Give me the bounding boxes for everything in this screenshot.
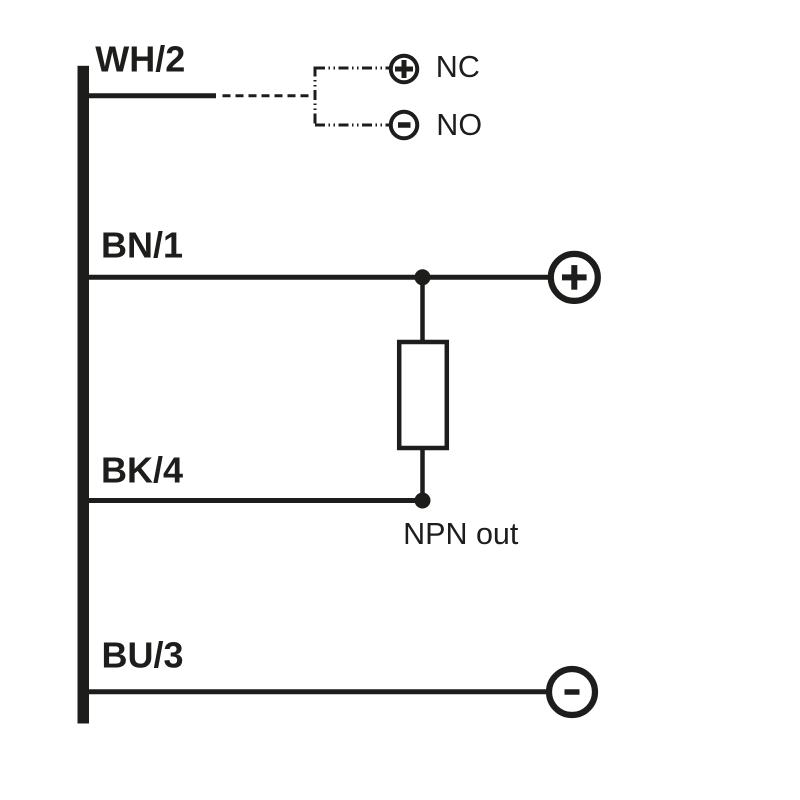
svg-text:BN/1: BN/1 [101, 224, 183, 265]
svg-text:BU/3: BU/3 [102, 635, 184, 676]
svg-text:NPN out: NPN out [403, 517, 519, 551]
svg-text:WH/2: WH/2 [95, 38, 185, 79]
svg-text:NC: NC [436, 50, 480, 84]
svg-text:NO: NO [436, 108, 482, 142]
svg-text:BK/4: BK/4 [101, 450, 183, 491]
